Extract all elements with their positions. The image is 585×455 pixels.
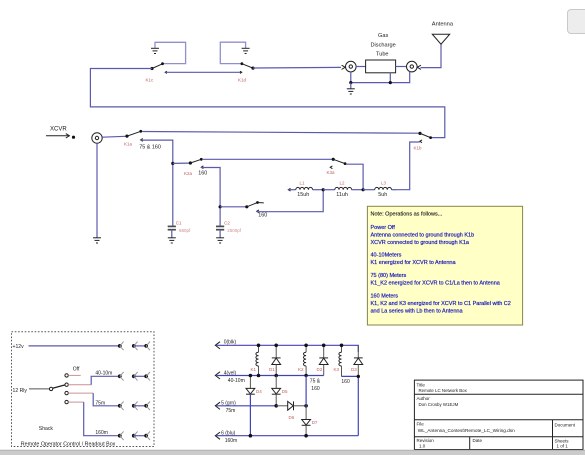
svg-text:40-10m: 40-10m — [228, 378, 245, 384]
svg-text:WL_Antenna_Contest\Remote_LC_W: WL_Antenna_Contest\Remote_LC_Wiring.dsn — [418, 428, 515, 433]
svg-text:680pf: 680pf — [179, 228, 191, 233]
label Antenna — [432, 22, 454, 28]
svg-text:Revision: Revision — [417, 438, 435, 443]
label 0(blk) — [224, 340, 237, 346]
wire J3 to K1a — [102, 135, 125, 138]
node 5(grn) arrow — [215, 402, 220, 409]
svg-text:40-10Meters: 40-10Meters — [371, 252, 402, 258]
svg-text:75m: 75m — [226, 408, 236, 414]
label D7 — [312, 420, 318, 425]
svg-text:1.0: 1.0 — [419, 444, 426, 449]
junction — [340, 344, 344, 348]
XCVR port arrow — [46, 134, 75, 139]
svg-text:XCVR connected to ground throu: XCVR connected to ground through K1a — [371, 240, 470, 246]
wire bus pole1 to K1b upper throw — [90, 69, 444, 138]
node 4(yel) arrow — [215, 372, 220, 379]
wire junction to K2b — [220, 206, 245, 208]
svg-text:Date: Date — [473, 438, 483, 443]
label Shack — [39, 426, 54, 432]
wire K3a throw to L2/L3 junction — [346, 164, 363, 188]
svg-text:75 &: 75 & — [310, 378, 321, 384]
connector J2 — [407, 61, 418, 72]
svg-text:K1d: K1d — [238, 78, 247, 83]
svg-text:160 Meters: 160 Meters — [371, 294, 399, 300]
svg-text:40-10m: 40-10m — [95, 371, 112, 377]
switch K1d (top-right ground switch) — [240, 62, 255, 73]
svg-text:K1: K1 — [251, 367, 257, 372]
svg-text:Note: Operations as follows..: Note: Operations as follows... — [371, 212, 443, 218]
svg-text:Gas: Gas — [378, 33, 388, 39]
ground — [151, 48, 159, 53]
label K3 — [334, 367, 340, 372]
label 5uh — [378, 192, 387, 198]
svg-text:Off: Off — [73, 366, 80, 372]
connector pins row 3 — [118, 402, 150, 411]
svg-text:L2: L2 — [340, 181, 346, 186]
label D5 — [282, 389, 288, 394]
open stub arrow at L1 left — [288, 188, 290, 191]
wire +12v — [29, 345, 119, 347]
svg-text:Author: Author — [417, 396, 431, 401]
arrow into J1 — [342, 65, 346, 69]
label 15uh — [297, 192, 309, 198]
junction — [171, 162, 174, 165]
svg-text:160: 160 — [341, 379, 350, 385]
label L3 — [381, 181, 387, 186]
junction — [349, 81, 352, 84]
switch K2a — [189, 158, 204, 169]
svg-text:Tube: Tube — [376, 52, 389, 58]
diode D6 (horizontal 75m to K2) — [276, 401, 306, 410]
svg-text:D3: D3 — [351, 367, 357, 372]
svg-text:160: 160 — [311, 386, 320, 392]
svg-text:File: File — [417, 422, 425, 427]
svg-text:11uh: 11uh — [336, 192, 348, 198]
diode D7 (series 160m) — [302, 420, 311, 436]
label 160 — [258, 213, 267, 219]
svg-text:160m: 160m — [95, 430, 108, 436]
svg-text:K3a: K3a — [327, 170, 336, 175]
svg-text:160: 160 — [258, 213, 267, 219]
label 160 — [198, 170, 207, 176]
label K1 — [251, 367, 257, 372]
svg-text:160: 160 — [198, 170, 207, 176]
label K1b — [414, 146, 423, 151]
scrollbar corner widget top-right — [568, 10, 585, 34]
wire K2a lower throw to C2 node — [201, 168, 220, 227]
label C2 — [224, 221, 230, 226]
svg-text:160m: 160m — [225, 438, 238, 444]
node 0(blk) arrow — [215, 342, 220, 349]
connector pins row 2 — [118, 372, 150, 381]
label Remote Operator Control / Readout Box — [21, 442, 116, 448]
svg-text:Shack: Shack — [39, 426, 54, 432]
wire loop to ground (left) — [155, 42, 186, 63]
junction — [389, 81, 392, 84]
wire tube to J2 — [396, 66, 407, 68]
wire K1a lower throw down — [141, 140, 173, 226]
label 160 — [311, 386, 320, 392]
label 4(yel) — [224, 371, 237, 377]
label 11uh — [336, 192, 348, 198]
diode D4 (series 40-10m) — [246, 376, 255, 436]
svg-text:L3: L3 — [381, 181, 387, 186]
label L2 — [340, 181, 346, 186]
svg-text:Power Off: Power Off — [371, 225, 396, 231]
svg-text:K1c: K1c — [146, 78, 155, 83]
switch K1b — [418, 132, 432, 143]
label +12v — [13, 344, 25, 350]
svg-text:D6: D6 — [289, 415, 295, 420]
svg-text:D7: D7 — [312, 420, 318, 425]
svg-text:75 & 160: 75 & 160 — [139, 145, 161, 151]
wire row 5(grn) left part — [217, 405, 277, 407]
label K3a — [327, 170, 336, 175]
svg-text:75m: 75m — [95, 400, 105, 406]
svg-text:K1, K2 and K3 energized for XC: K1, K2 and K3 energized for XCVR to C1 P… — [371, 301, 511, 307]
label 2500pf — [227, 228, 242, 233]
svg-text:D4: D4 — [256, 389, 262, 394]
junction — [257, 344, 261, 378]
label K2a — [184, 171, 193, 176]
ground under C2 — [216, 238, 224, 243]
relay coil K2 — [304, 345, 307, 376]
label D1 — [269, 367, 275, 372]
wire junction to K2a — [173, 162, 189, 164]
junction — [249, 374, 253, 438]
svg-text:K2a: K2a — [184, 171, 193, 176]
wire between switch throws — [166, 71, 242, 73]
wire K1b lower throw to inductor chain — [396, 142, 420, 190]
label D4 — [256, 389, 262, 394]
junction — [304, 404, 308, 408]
wire row 0(blk) — [217, 345, 359, 352]
svg-text:Antenna connected to ground th: Antenna connected to ground through K1b — [371, 233, 475, 239]
diode D2 (flyback K2) — [319, 345, 328, 375]
svg-text:1 of 1: 1 of 1 — [557, 444, 569, 449]
connector pins row 4 — [118, 431, 150, 440]
gas discharge tube body — [366, 60, 396, 73]
switch K1c (top-left ground switch) — [150, 62, 167, 73]
bottom scrollbar strip — [0, 450, 585, 455]
svg-text:12 Rly: 12 Rly — [13, 388, 28, 394]
label 12 Rly — [13, 388, 28, 394]
inductor L1 15uh — [288, 187, 322, 189]
wire K2b lower throw to L1/L2 junction — [257, 190, 324, 212]
wire 160m position — [68, 402, 118, 436]
label D6 — [289, 415, 295, 420]
svg-text:Remote LC Network Box: Remote LC Network Box — [419, 388, 468, 393]
svg-text:Remote Operator Control / Read: Remote Operator Control / Readout Box — [21, 442, 116, 448]
wire row 4(yel) — [217, 375, 324, 377]
wire K2 node down to 6(blu) — [305, 376, 307, 420]
svg-text:D2: D2 — [317, 367, 323, 372]
svg-text:2500pf: 2500pf — [227, 228, 242, 233]
svg-text:C2: C2 — [224, 221, 230, 226]
wire K3 bottom node — [342, 375, 359, 377]
svg-text:K1 energized for XCVR to Anten: K1 energized for XCVR to Antenna — [371, 260, 457, 266]
svg-text:K3: K3 — [334, 367, 340, 372]
wire pole to gas tube connector — [253, 66, 341, 69]
svg-text:+12v: +12v — [13, 344, 25, 350]
wire 75m position — [68, 393, 118, 406]
junction — [274, 344, 278, 378]
label Off — [73, 366, 80, 372]
switch K2b — [245, 201, 264, 213]
svg-text:5uh: 5uh — [378, 192, 387, 198]
svg-text:Title: Title — [417, 382, 426, 387]
title block text — [417, 382, 576, 448]
svg-text:15uh: 15uh — [297, 192, 309, 198]
label 6 (blu) — [221, 431, 236, 437]
stub Off position — [68, 374, 80, 376]
wire antenna to J2 — [421, 44, 442, 67]
svg-text:K2: K2 — [298, 367, 304, 372]
ground under J1 — [347, 83, 355, 94]
capacitor C2 — [216, 226, 224, 237]
wire 40-10m position — [68, 376, 118, 384]
label L1 — [300, 181, 306, 186]
label 160m — [95, 430, 108, 436]
svg-text:K1_K2 energized for XCVR to C: K1_K2 energized for XCVR to C1/La then t… — [371, 281, 501, 287]
label 680pf — [179, 228, 191, 233]
inductor L2 11uh — [323, 187, 362, 189]
junction — [357, 375, 360, 378]
label C1 — [176, 221, 182, 226]
label 75 & — [310, 378, 321, 384]
junction — [304, 344, 308, 378]
relay coil K1 — [256, 345, 259, 375]
label K1a — [124, 142, 133, 147]
note text — [371, 212, 511, 315]
label D3 — [351, 367, 357, 372]
junction — [322, 344, 326, 348]
label K2 — [298, 367, 304, 372]
svg-text:XCVR: XCVR — [50, 126, 67, 132]
dashed enclosure — [12, 332, 155, 447]
wire row 6(blu) — [217, 435, 359, 437]
svg-text:D5: D5 — [282, 389, 288, 394]
wire K1a top throw to K1b pole — [142, 132, 418, 134]
connector J1 — [346, 61, 357, 72]
antenna symbol — [432, 34, 449, 44]
switch K1a — [125, 130, 142, 141]
wire loop to ground (right) — [220, 42, 245, 63]
arrow into J2 — [417, 65, 421, 69]
diode D3 (flyback K3) — [354, 345, 363, 435]
svg-text:L1: L1 — [300, 181, 306, 186]
svg-text:Antenna: Antenna — [432, 22, 454, 28]
svg-text:C1: C1 — [176, 221, 182, 226]
diode D1 (flyback K1) — [272, 345, 281, 375]
connector pins row 1 — [118, 342, 150, 351]
label K1c — [146, 78, 155, 83]
svg-text:75 (80) Meters: 75 (80) Meters — [371, 273, 407, 279]
title block frame — [414, 380, 583, 449]
junction — [304, 434, 308, 438]
junction — [274, 404, 278, 408]
label 40-10m — [95, 371, 112, 377]
rotary switch 12 Rly — [29, 374, 68, 404]
inductor L3 5uh — [363, 187, 396, 189]
node 6(blu) arrow — [215, 432, 220, 439]
svg-text:K1b: K1b — [414, 146, 423, 151]
svg-text:Don Crosby W1EJM: Don Crosby W1EJM — [419, 402, 459, 407]
label 75 & 160 — [139, 145, 161, 151]
connector J3 — [92, 133, 102, 143]
ground under C1 — [168, 238, 176, 243]
label 160m — [225, 438, 238, 444]
ground — [242, 48, 250, 53]
label 40-10m — [228, 378, 245, 384]
capacitor C1 — [168, 226, 176, 237]
junction — [219, 205, 222, 208]
junction L2/L3 — [362, 188, 365, 191]
label 5 (grn) — [221, 401, 236, 407]
svg-text:and La series with Lb then to: and La series with Lb then to Antenna — [371, 308, 464, 314]
svg-text:K1a: K1a — [124, 142, 133, 147]
junction L1/L2 — [322, 188, 325, 191]
label 160 — [341, 379, 350, 385]
svg-text:D1: D1 — [269, 367, 275, 372]
ground bus under tube — [351, 72, 410, 83]
note box — [367, 206, 522, 325]
svg-text:Document: Document — [555, 423, 576, 428]
label 75m — [95, 400, 105, 406]
label XCVR — [50, 126, 67, 132]
wire K2a top throw to K3a pole — [203, 158, 332, 160]
ground under J3 — [93, 143, 101, 243]
label Gas Discharge Tube — [371, 33, 396, 57]
diode D5 (series 75m) — [272, 376, 281, 406]
svg-text:Discharge: Discharge — [371, 42, 396, 48]
label K1d — [238, 78, 247, 83]
switch K3a — [330, 158, 346, 169]
relay coil K3 — [339, 345, 342, 376]
wire J1 to tube — [356, 66, 366, 68]
label D2 — [317, 367, 323, 372]
label 75m — [226, 408, 236, 414]
